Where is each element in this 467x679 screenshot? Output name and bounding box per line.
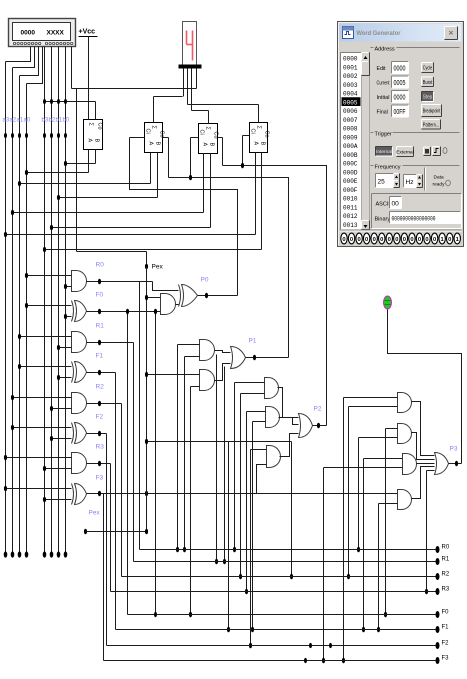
svg-text:0003: 0003 <box>343 82 358 89</box>
svg-text:0000: 0000 <box>21 30 36 37</box>
svg-text:0006: 0006 <box>343 108 358 115</box>
svg-text:Co: Co <box>97 123 103 130</box>
svg-text:XXXX: XXXX <box>47 30 65 37</box>
svg-text:R2: R2 <box>442 572 450 578</box>
svg-text:A: A <box>253 142 259 146</box>
svg-text:0000: 0000 <box>394 95 406 102</box>
svg-text:Ci: Ci <box>250 129 256 134</box>
svg-text:P2: P2 <box>314 406 322 413</box>
svg-text:Binary: Binary <box>375 217 391 223</box>
svg-text:000D: 000D <box>343 169 358 176</box>
svg-text:F2: F2 <box>442 641 450 647</box>
svg-text:F3: F3 <box>442 656 450 662</box>
svg-text:R2: R2 <box>96 384 105 391</box>
svg-text:B: B <box>260 142 266 146</box>
svg-text:Internal: Internal <box>376 149 392 155</box>
svg-text:A: A <box>148 142 154 146</box>
svg-text:b0: b0 <box>63 118 70 124</box>
svg-text:B: B <box>209 143 215 147</box>
svg-text:0: 0 <box>395 237 398 243</box>
svg-text:Data: Data <box>434 175 444 181</box>
svg-text:0004: 0004 <box>343 91 358 98</box>
svg-text:R3: R3 <box>442 587 450 593</box>
svg-text:0000000000000000: 0000000000000000 <box>392 216 436 223</box>
svg-text:External: External <box>396 149 414 155</box>
svg-text:0011: 0011 <box>343 204 358 211</box>
svg-text:000B: 000B <box>343 152 358 159</box>
svg-text:Breakpoint: Breakpoint <box>423 109 441 115</box>
svg-text:0005: 0005 <box>343 99 358 106</box>
svg-text:Pex: Pex <box>152 264 164 271</box>
svg-text:F3: F3 <box>96 475 104 482</box>
svg-text:F0: F0 <box>96 292 104 299</box>
svg-text:00FF: 00FF <box>394 109 406 116</box>
svg-text:0005: 0005 <box>394 80 406 87</box>
svg-text:Address: Address <box>375 47 395 53</box>
svg-text:0001: 0001 <box>343 64 358 71</box>
svg-text:0: 0 <box>373 237 376 243</box>
svg-text:Pattern...: Pattern... <box>423 122 440 128</box>
svg-text:0: 0 <box>448 237 451 243</box>
svg-text:F1: F1 <box>96 353 104 360</box>
svg-text:R0: R0 <box>442 545 450 551</box>
svg-text:Ci: Ci <box>145 129 151 134</box>
svg-text:×: × <box>449 28 454 38</box>
svg-text:0: 0 <box>342 237 345 243</box>
svg-text:000F: 000F <box>343 187 358 194</box>
svg-text:0: 0 <box>365 237 368 243</box>
svg-text:00: 00 <box>392 201 400 208</box>
svg-text:a0: a0 <box>24 118 31 124</box>
svg-text:0: 0 <box>357 237 360 243</box>
svg-text:0008: 0008 <box>343 126 358 133</box>
svg-text:Burst: Burst <box>423 80 433 86</box>
svg-text:Co: Co <box>159 131 165 138</box>
svg-text:0013: 0013 <box>343 222 358 229</box>
svg-text:000E: 000E <box>343 178 358 185</box>
svg-text:F0: F0 <box>442 610 450 616</box>
svg-text:Frequency: Frequency <box>375 165 401 171</box>
svg-text:0: 0 <box>410 237 413 243</box>
svg-text:0: 0 <box>418 237 421 243</box>
svg-text:25: 25 <box>378 179 386 186</box>
svg-text:0000: 0000 <box>394 66 406 73</box>
svg-text:P3: P3 <box>450 446 458 453</box>
svg-text:Cycle: Cycle <box>423 66 433 72</box>
svg-text:0: 0 <box>433 237 436 243</box>
svg-text:0002: 0002 <box>343 73 358 80</box>
svg-text:F2: F2 <box>96 414 104 421</box>
svg-text:Step: Step <box>423 95 433 101</box>
svg-text:B: B <box>94 139 100 143</box>
svg-text:R3: R3 <box>96 444 105 451</box>
svg-text:Co: Co <box>264 131 270 138</box>
svg-text:0: 0 <box>425 237 428 243</box>
svg-text:Hz: Hz <box>406 179 414 186</box>
svg-text:000C: 000C <box>343 161 358 168</box>
svg-text:Σ: Σ <box>88 123 94 127</box>
svg-text:P0: P0 <box>201 277 209 284</box>
svg-text:Ci: Ci <box>199 130 205 135</box>
svg-text:Current: Current <box>377 81 390 87</box>
svg-text:0009: 0009 <box>343 134 358 141</box>
svg-text:0007: 0007 <box>343 117 358 124</box>
svg-text:Edit: Edit <box>377 66 386 72</box>
svg-text:0010: 0010 <box>343 196 358 203</box>
svg-text:Pex: Pex <box>89 510 101 517</box>
svg-text:R1: R1 <box>442 557 450 563</box>
svg-text:0000: 0000 <box>343 56 358 63</box>
svg-text:+Vcc: +Vcc <box>79 29 96 36</box>
svg-text:ASCII: ASCII <box>376 202 391 208</box>
svg-text:P1: P1 <box>249 338 257 345</box>
svg-text:0012: 0012 <box>343 213 358 220</box>
svg-text:Trigger: Trigger <box>375 132 392 138</box>
svg-text:Word Generator: Word Generator <box>357 30 401 37</box>
svg-text:0: 0 <box>388 237 391 243</box>
svg-text:0: 0 <box>403 237 406 243</box>
svg-text:Final: Final <box>377 110 388 116</box>
svg-text:A: A <box>87 139 93 143</box>
svg-text:0: 0 <box>380 237 383 243</box>
svg-text:A: A <box>202 143 208 147</box>
svg-text:0: 0 <box>350 237 353 243</box>
svg-text:Initial: Initial <box>377 95 390 101</box>
svg-text:F1: F1 <box>442 625 450 631</box>
svg-text:R1: R1 <box>96 323 105 330</box>
svg-text:B: B <box>155 142 161 146</box>
svg-text:ready: ready <box>433 182 446 188</box>
svg-text:000A: 000A <box>343 143 358 150</box>
svg-text:R0: R0 <box>96 262 105 269</box>
